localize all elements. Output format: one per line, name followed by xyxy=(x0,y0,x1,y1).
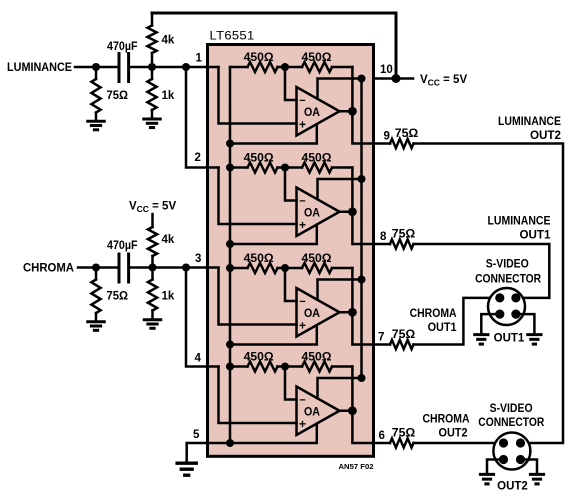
ground connector 2 right xyxy=(529,473,545,476)
svg-text:S-VIDEO: S-VIDEO xyxy=(486,258,529,270)
svg-text:VCC = 5V: VCC = 5V xyxy=(420,74,467,88)
svg-text:75Ω: 75Ω xyxy=(107,291,129,303)
svg-text:2: 2 xyxy=(195,152,201,164)
ground connector 2 left xyxy=(479,473,495,476)
resistor 1k chroma bias lower xyxy=(151,268,154,280)
capacitor 470uF luminance xyxy=(118,54,121,82)
svg-text:450Ω: 450Ω xyxy=(244,251,274,265)
node chroma bias xyxy=(149,264,157,272)
node gnd bus tap amp D xyxy=(226,439,234,447)
svg-text:75Ω: 75Ω xyxy=(392,327,416,341)
svg-text:450Ω: 450Ω xyxy=(302,50,332,64)
pin ground left connector 1 xyxy=(495,310,504,319)
wire gnd tap amp D xyxy=(230,424,317,443)
resistor 75ohm chroma termination xyxy=(95,268,98,280)
svg-text:75Ω: 75Ω xyxy=(395,126,419,140)
resistor 75ohm output pin 6 xyxy=(374,442,391,445)
wire VCC tap amp B xyxy=(318,179,362,199)
svg-text:1k: 1k xyxy=(162,291,175,303)
svg-text:AN57 F02: AN57 F02 xyxy=(339,462,374,471)
resistor 450ohm input amp C xyxy=(230,267,248,270)
wire feedback to output amp C xyxy=(351,268,354,312)
wire output amp C xyxy=(340,312,374,344)
svg-text:−: − xyxy=(299,296,305,308)
svg-text:75Ω: 75Ω xyxy=(392,227,416,241)
resistor 4k luminance bias upper xyxy=(151,13,154,26)
wire feedback to output amp B xyxy=(351,168,354,212)
wire gnd tap amp A xyxy=(230,124,317,143)
ground chroma 75ohm xyxy=(86,320,106,323)
svg-text:450Ω: 450Ω xyxy=(302,251,332,265)
wire noninverting input amp B xyxy=(219,168,297,225)
svg-text:4: 4 xyxy=(195,353,202,365)
node VCC bus amp A xyxy=(358,75,366,83)
resistor 450ohm feedback amp B xyxy=(285,166,302,169)
wire luminance out2 to connector 2 xyxy=(414,144,564,444)
wire gnd tap amp B xyxy=(230,225,317,244)
wire noninverting input amp D xyxy=(219,367,297,424)
svg-text:OA: OA xyxy=(304,308,320,320)
wire inverting input amp C xyxy=(285,268,297,301)
wire internal VCC bus xyxy=(360,79,363,379)
svg-text:−: − xyxy=(299,394,305,406)
ground luminance 1k xyxy=(142,118,162,121)
node feedback junction amp C xyxy=(281,264,289,272)
resistor 75ohm output pin 7 xyxy=(374,343,391,346)
svg-text:450Ω: 450Ω xyxy=(244,50,274,64)
svg-text:4k: 4k xyxy=(162,234,175,246)
node gnd bus amp B xyxy=(226,164,234,172)
wire pin 10 to VCC xyxy=(374,77,414,80)
pin chroma connector 2 xyxy=(499,438,508,447)
node output amp A xyxy=(348,107,357,116)
svg-text:450Ω: 450Ω xyxy=(244,350,274,364)
svg-text:VCC = 5V: VCC = 5V xyxy=(129,201,176,215)
svg-text:10: 10 xyxy=(380,64,393,76)
svg-text:450Ω: 450Ω xyxy=(302,151,332,165)
resistor 450ohm input amp B xyxy=(230,166,248,169)
wire internal ground bus xyxy=(229,67,232,443)
svg-text:9: 9 xyxy=(384,131,390,143)
wire chroma input xyxy=(78,266,117,269)
svg-text:75Ω: 75Ω xyxy=(107,90,129,102)
resistor 75ohm luminance termination xyxy=(95,67,98,79)
op-amp OA amp D xyxy=(297,387,340,436)
pin luminance connector 1 xyxy=(511,293,520,302)
svg-text:LUMINANCE: LUMINANCE xyxy=(498,116,561,128)
wire pin 4 branch xyxy=(186,268,219,367)
wire luminance out1 to connector 1 xyxy=(414,244,550,298)
svg-text:8: 8 xyxy=(380,231,387,243)
svg-text:OUT2: OUT2 xyxy=(497,481,528,493)
wire feedback to output amp A xyxy=(351,67,354,111)
svg-text:OA: OA xyxy=(304,208,320,220)
svg-text:6: 6 xyxy=(379,430,385,442)
node feedback junction amp A xyxy=(281,63,289,71)
node luminance to pin 2 branch xyxy=(182,63,190,71)
wire output amp B xyxy=(340,212,374,244)
svg-text:+: + xyxy=(299,218,306,232)
pin ground left connector 2 xyxy=(499,455,508,464)
node gnd bus amp C xyxy=(226,264,234,272)
svg-text:450Ω: 450Ω xyxy=(302,350,332,364)
connector J2 S-video OUT2 shell xyxy=(493,433,530,470)
node chroma to pin 4 branch xyxy=(182,264,190,272)
svg-text:470µF: 470µF xyxy=(107,41,138,53)
wire VCC tap amp A xyxy=(318,79,362,99)
node output amp B xyxy=(348,207,357,216)
node VCC bus amp D xyxy=(358,374,366,382)
wire noninverting input amp A xyxy=(219,67,297,124)
wire output amp A xyxy=(340,111,374,143)
node gnd bus tap amp C xyxy=(226,341,234,349)
resistor 450ohm feedback amp A xyxy=(285,66,302,69)
wire VCC top rail xyxy=(152,13,396,79)
svg-text:OUT1: OUT1 xyxy=(428,322,458,334)
wire chroma out2 to connector 2 xyxy=(414,442,504,445)
wire output amp D xyxy=(340,411,374,443)
op-amp OA amp A xyxy=(297,87,340,136)
svg-text:5: 5 xyxy=(193,429,200,441)
svg-text:3: 3 xyxy=(195,253,201,265)
svg-text:7: 7 xyxy=(378,332,384,344)
wire luminance input xyxy=(75,66,117,69)
wire pin 2 branch xyxy=(186,67,219,168)
wire inverting input amp A xyxy=(285,67,297,100)
ground pin 5 xyxy=(175,462,198,465)
op-amp U1 LT6551 body xyxy=(208,45,374,457)
node VCC bus amp B xyxy=(358,175,366,183)
node luminance 75ohm tap xyxy=(92,63,100,71)
svg-text:OUT1: OUT1 xyxy=(520,230,552,242)
wire chroma VCC stub xyxy=(151,214,154,227)
svg-text:CHROMA: CHROMA xyxy=(423,414,470,426)
wire connector 1 ground right xyxy=(516,314,535,333)
resistor 1k luminance bias lower xyxy=(151,67,154,79)
pin luminance connector 2 xyxy=(516,438,525,447)
svg-text:OUT1: OUT1 xyxy=(494,333,525,345)
node gnd bus amp D xyxy=(226,363,234,371)
node output amp C xyxy=(348,308,357,317)
svg-text:450Ω: 450Ω xyxy=(244,151,274,165)
node output amp D xyxy=(348,406,357,415)
svg-text:470µF: 470µF xyxy=(107,240,138,252)
svg-text:−: − xyxy=(299,95,305,107)
wire gnd tap amp C xyxy=(230,325,317,344)
svg-text:+: + xyxy=(299,319,306,333)
wire chroma node to pin 3 xyxy=(130,266,218,269)
resistor 450ohm input amp D xyxy=(230,365,248,368)
node VCC at pin 10 xyxy=(392,74,401,83)
svg-text:CHROMA: CHROMA xyxy=(410,308,457,320)
wire inverting input amp B xyxy=(285,168,297,201)
node chroma 75ohm tap xyxy=(92,264,100,272)
node feedback junction amp B xyxy=(281,164,289,172)
resistor 75ohm output pin 9 xyxy=(374,142,391,145)
svg-text:CHROMA: CHROMA xyxy=(23,263,74,275)
wire connector 2 ground left xyxy=(487,460,504,473)
node VCC bus amp C xyxy=(358,276,366,284)
op-amp OA amp B xyxy=(297,188,340,237)
wire noninverting input amp C xyxy=(219,268,297,325)
pin ground right connector 1 xyxy=(511,310,520,319)
ground connector 1 left xyxy=(473,333,489,336)
svg-text:1k: 1k xyxy=(162,90,175,102)
svg-text:S-VIDEO: S-VIDEO xyxy=(490,403,533,415)
svg-text:OA: OA xyxy=(304,407,320,419)
svg-text:−: − xyxy=(299,195,305,207)
svg-text:LUMINANCE: LUMINANCE xyxy=(7,62,72,74)
svg-text:CONNECTOR: CONNECTOR xyxy=(478,417,545,429)
wire chroma out1 to connector 1 xyxy=(414,298,500,345)
wire VCC tap amp D xyxy=(318,378,362,398)
wire connector 2 ground right xyxy=(521,460,538,473)
svg-text:OUT2: OUT2 xyxy=(439,428,468,440)
svg-text:LUMINANCE: LUMINANCE xyxy=(488,216,551,228)
resistor 450ohm input amp A xyxy=(230,66,248,69)
capacitor 470uF chroma xyxy=(118,254,121,282)
ground chroma 1k xyxy=(143,318,163,321)
svg-text:75Ω: 75Ω xyxy=(392,426,416,440)
node feedback junction amp D xyxy=(281,363,289,371)
ground connector 1 right xyxy=(526,333,542,336)
resistor 75ohm output pin 8 xyxy=(374,243,391,246)
wire feedback to output amp D xyxy=(351,367,354,411)
svg-text:LT6551: LT6551 xyxy=(210,29,255,43)
wire VCC tap amp C xyxy=(318,280,362,300)
resistor 4k chroma bias upper xyxy=(148,227,157,256)
connector J1 S-video OUT1 shell xyxy=(488,288,525,325)
ground luminance 75ohm xyxy=(86,120,106,123)
svg-text:OA: OA xyxy=(304,107,320,119)
node gnd bus tap amp B xyxy=(226,240,234,248)
resistor 450ohm feedback amp C xyxy=(285,267,302,270)
wire connector 1 ground left xyxy=(481,314,500,333)
svg-text:1: 1 xyxy=(196,53,203,65)
svg-text:+: + xyxy=(299,417,306,431)
node luminance bias xyxy=(148,63,156,71)
svg-text:4k: 4k xyxy=(162,35,175,47)
node gnd bus tap amp A xyxy=(226,140,234,148)
svg-text:OUT2: OUT2 xyxy=(530,130,561,142)
pin chroma connector 1 xyxy=(495,293,504,302)
wire pin 5 ground lead xyxy=(187,443,230,462)
pin ground right connector 2 xyxy=(516,455,525,464)
op-amp OA amp C xyxy=(297,288,340,337)
svg-text:CONNECTOR: CONNECTOR xyxy=(475,274,542,286)
svg-text:+: + xyxy=(299,118,306,132)
wire luminance node to pin 1 xyxy=(130,66,218,69)
resistor 450ohm feedback amp D xyxy=(285,365,302,368)
wire inverting input amp D xyxy=(285,367,297,400)
